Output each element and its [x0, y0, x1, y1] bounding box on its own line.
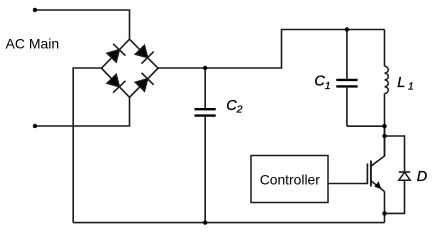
transistor Q1 collector lead — [371, 126, 385, 166]
inductor L1 coil — [385, 66, 389, 93]
wire bottom AC: terminal to bridge bottom — [35, 97, 130, 126]
svg-text:2: 2 — [236, 104, 243, 116]
transistor Q1 emitter arrow — [374, 181, 381, 189]
wire positive bus: bridge right vertex to tank corner, up, and across tank top — [158, 30, 385, 69]
bridge diode bottom-right — [135, 73, 153, 91]
bridge diode top-right — [135, 45, 153, 63]
node: C2 bottom / bottom rail — [203, 220, 207, 224]
svg-text:Controller: Controller — [260, 171, 321, 187]
wire L1 leads — [384, 30, 386, 127]
capacitor C2 plates — [195, 109, 216, 115]
transistor Q1 emitter lead — [371, 181, 385, 192]
wire C1 leads — [346, 30, 348, 127]
node: tank top / C1 — [345, 27, 349, 31]
wire negative rail: bridge left vertex, left and down to bottom rail — [73, 68, 101, 223]
node: emitter / diode bottom junction — [382, 211, 386, 215]
capacitor C1 plates — [336, 80, 357, 87]
wire diode branch bottom — [385, 180, 405, 213]
bridge diode top-left — [107, 44, 125, 62]
bridge rectifier diamond — [102, 39, 159, 97]
wire tank bottom — [347, 125, 385, 127]
transistor Q1 (IGBT) gate bar — [366, 164, 368, 185]
svg-text:AC Main: AC Main — [6, 35, 60, 51]
node: bus / C2 top — [203, 66, 207, 70]
Controller box — [251, 156, 328, 203]
wire bottom rail — [73, 222, 384, 224]
node: tank bottom / L1 / collector — [382, 124, 386, 128]
wire C2 leads — [204, 68, 206, 223]
node: bottom AC terminal — [33, 124, 37, 128]
wire collector drop: tank bottom node down to IGBT collector — [384, 126, 386, 156]
wire gate lead from controller — [328, 183, 368, 185]
diode D triangle — [399, 172, 410, 180]
svg-text:1: 1 — [408, 81, 414, 93]
transistor Q1 body bar — [370, 161, 372, 187]
svg-text:1: 1 — [325, 80, 331, 92]
wire diode branch top — [385, 136, 405, 172]
node: diode top junction — [382, 134, 386, 138]
bridge diode bottom-left — [107, 74, 125, 92]
svg-text:D: D — [417, 169, 427, 185]
wire top AC: terminal to bridge top — [35, 10, 130, 39]
svg-text:L: L — [397, 75, 405, 91]
node: top AC terminal — [33, 8, 37, 12]
diode D cathode bar — [399, 171, 410, 173]
wire emitter drop to bottom rail — [384, 192, 386, 223]
svg-text:C: C — [314, 74, 325, 90]
